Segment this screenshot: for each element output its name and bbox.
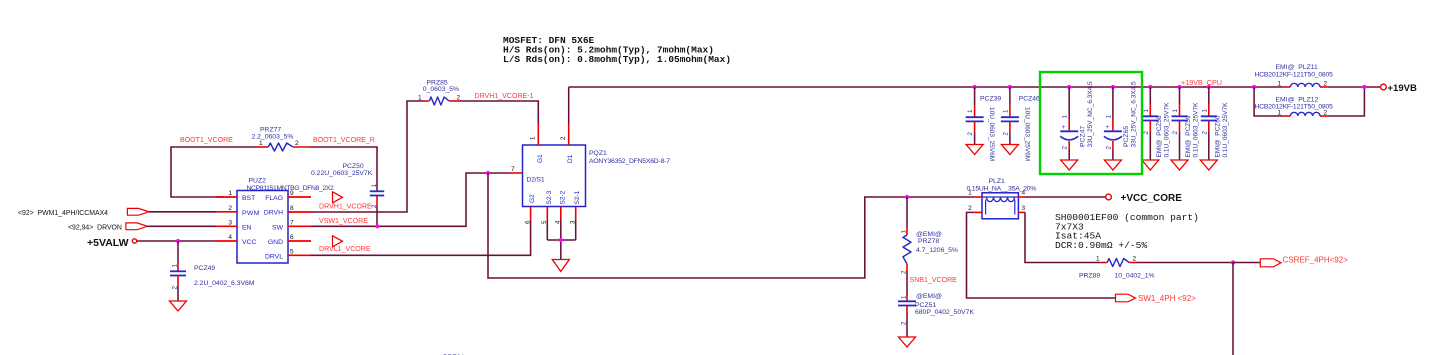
highlight box (green) (1040, 72, 1142, 174)
svg-text:PRZ77: PRZ77 (260, 126, 281, 133)
svg-text:33U_25V_NC_6.3X4.5: 33U_25V_NC_6.3X4.5 (1087, 81, 1094, 148)
svg-text:4: 4 (228, 234, 232, 241)
svg-text:DRVH1_VCORE-1: DRVH1_VCORE-1 (475, 93, 534, 100)
ferrite bead L PLZ12 (1255, 96, 1334, 116)
svg-text:PUZ2: PUZ2 (249, 177, 267, 184)
wire PCZ50 to VSW node (376, 206, 378, 226)
svg-text:2: 2 (968, 205, 972, 212)
net label DRVH1_VCORE (319, 203, 372, 210)
svg-text:VSW1_VCORE: VSW1_VCORE (319, 218, 368, 225)
svg-text:0.1U_0603_25V7K: 0.1U_0603_25V7K (1193, 102, 1200, 158)
svg-text:DRVL: DRVL (265, 253, 283, 260)
svg-text:1: 1 (1172, 109, 1179, 113)
svg-text:1: 1 (1143, 109, 1150, 113)
svg-text:+: + (1105, 124, 1109, 131)
net label VSW1_VCORE (319, 218, 368, 225)
svg-text:FLAG: FLAG (265, 195, 283, 202)
svg-text:9: 9 (290, 190, 294, 197)
svg-text:2: 2 (1201, 131, 1208, 135)
net label CSREF_4PH<92> (1283, 255, 1349, 264)
wire PLZ1 pin4 to +VCC_CORE (1026, 196, 1106, 198)
svg-text:2: 2 (1324, 80, 1328, 87)
junction node PCZ50 on VSW (375, 224, 379, 228)
svg-text:HCB2012KF-121T50_0805: HCB2012KF-121T50_0805 (1255, 104, 1334, 111)
capacitor C PCZ46 (1001, 85, 1040, 161)
signal arrow on GND row (DRVL1_VCORE) (333, 236, 343, 247)
svg-text:S2-1: S2-1 (574, 190, 581, 204)
svg-text:1: 1 (1201, 109, 1208, 113)
input port DRVON (68, 223, 148, 231)
wire CSREF to port (1233, 262, 1260, 264)
capacitor C PCZ47 (polarized) (1060, 81, 1094, 170)
svg-text:<92,94> DRVON: <92,94> DRVON (68, 224, 122, 231)
svg-text:PLZ1: PLZ1 (989, 178, 1005, 185)
note SH00001EF00 spec text (1055, 212, 1199, 251)
svg-text:2.2_0603_5%: 2.2_0603_5% (252, 133, 294, 140)
svg-text:HCB2012KF-121T50_0805: HCB2012KF-121T50_0805 (1255, 71, 1334, 78)
svg-text:DCR:0.90mΩ +/-5%: DCR:0.90mΩ +/-5% (1055, 240, 1147, 251)
svg-text:7: 7 (290, 219, 294, 226)
svg-text:D2/S1: D2/S1 (527, 177, 545, 184)
svg-text:1: 1 (259, 140, 263, 147)
signal arrow on FLAG row (DRVH1_VCORE) (333, 192, 343, 203)
svg-text:0.1U_0603_25V7K: 0.1U_0603_25V7K (1222, 102, 1229, 158)
svg-text:2: 2 (1143, 131, 1150, 135)
svg-text:1: 1 (228, 190, 232, 197)
svg-text:<92> PWM1_4PH/ICCMAX4: <92> PWM1_4PH/ICCMAX4 (18, 210, 108, 217)
svg-text:1: 1 (1277, 80, 1281, 87)
junction node CSREF (1231, 260, 1235, 264)
capacitor C PCZ59 (1171, 85, 1200, 170)
svg-text:SW1_4PH <92>: SW1_4PH <92> (1138, 294, 1196, 303)
svg-text:SW: SW (272, 224, 284, 231)
svg-text:0_0603_5%: 0_0603_5% (423, 86, 459, 93)
svg-text:S2-2: S2-2 (559, 190, 566, 204)
svg-text:2.2U_0402_6.3V6M: 2.2U_0402_6.3V6M (194, 280, 255, 287)
svg-text:BOOT1_VCORE_R: BOOT1_VCORE_R (313, 137, 375, 144)
svg-text:10U_0603_25V6M: 10U_0603_25V6M (1023, 107, 1030, 161)
svg-text:10U_0603_25V6M: 10U_0603_25V6M (988, 107, 995, 161)
wire D1 to +19VB bus (568, 87, 570, 124)
wire +5VALW to VCC pin 4 (137, 240, 216, 242)
svg-text:EMI@ PCZ60: EMI@ PCZ60 (1214, 115, 1221, 157)
svg-text:2: 2 (967, 132, 974, 136)
svg-text:2: 2 (1105, 146, 1112, 150)
junction node source bar (559, 238, 563, 242)
svg-text:G2: G2 (529, 194, 536, 203)
input port PWM1_4PH/ICCMAX4 (18, 208, 149, 216)
svg-text:1: 1 (1002, 109, 1009, 113)
net label DRVH1_VCORE-1 (475, 93, 534, 100)
svg-text:D1: D1 (567, 154, 574, 163)
svg-text:1: 1 (967, 109, 974, 113)
op-amp/driver IC PUZ2 body (237, 177, 334, 263)
svg-text:1: 1 (901, 295, 908, 299)
wire DRVH1_VCORE-1 (PRZ85 to G1) (460, 101, 538, 124)
svg-text:1: 1 (1096, 256, 1100, 263)
svg-text:DRVH: DRVH (264, 210, 283, 217)
capacitor C PCZ39 (966, 85, 1002, 161)
resistor R PRZ77 (252, 126, 311, 151)
svg-text:3: 3 (1022, 205, 1026, 212)
svg-text:VCC: VCC (242, 239, 256, 246)
svg-text:BST: BST (242, 195, 255, 202)
svg-text:2: 2 (172, 286, 179, 290)
junction node phase at D2/S1 (486, 171, 490, 175)
svg-text:2: 2 (457, 95, 461, 102)
svg-text:GND: GND (268, 239, 283, 246)
svg-text:1: 1 (901, 230, 908, 234)
svg-text:L/S Rds(on): 0.8mohm(Typ), 1.0: L/S Rds(on): 0.8mohm(Typ), 1.05mohm(Max) (503, 54, 731, 65)
wire CSREF net (PLZ1 pin3 through PRZ89) (1025, 212, 1233, 262)
wire DRVL net (pin 5 to G2) (311, 220, 531, 255)
svg-text:BOOT1_VCORE: BOOT1_VCORE (180, 137, 233, 144)
svg-text:EMI@ PCZ59: EMI@ PCZ59 (1185, 115, 1192, 157)
svg-text:PCZ50: PCZ50 (343, 163, 364, 170)
svg-text:0.22U_0603_25V7K: 0.22U_0603_25V7K (311, 170, 373, 177)
pin stubs PUZ2 right (9 FLAG, 8 DRVH, 7 SW, 6 GND, 5 DRVL) (288, 190, 311, 255)
junction node PRZ78 tap (905, 195, 909, 199)
junction node +5VALW / PCZ49 (176, 239, 180, 243)
svg-text:1: 1 (172, 264, 179, 268)
power terminal +VCC_CORE (1106, 193, 1183, 204)
svg-text:G1: G1 (537, 154, 544, 163)
transistor Q PQZ1 body (523, 145, 671, 207)
output port CSREF_4PH (1260, 259, 1281, 267)
svg-text:2: 2 (1133, 256, 1137, 263)
svg-text:2: 2 (901, 321, 908, 325)
svg-text:+19VB_CPU: +19VB_CPU (1181, 78, 1222, 87)
svg-text:2: 2 (228, 205, 232, 212)
wire VSW net (SW pin to phase) (311, 173, 510, 226)
wire SW1_4PH net (PLZ1 pin2) (967, 212, 1116, 298)
wire PQZ1 source pins to ground bar (547, 220, 575, 260)
junction node PLZ11/PLZ12 right (1362, 85, 1366, 89)
ground (PCZ49) (170, 301, 187, 311)
svg-text:EMI@ PLZ11: EMI@ PLZ11 (1276, 64, 1319, 71)
wire PLZ12 branch (1254, 87, 1364, 116)
svg-text:3: 3 (228, 219, 232, 226)
output port SW1_4PH (1116, 294, 1136, 302)
capacitor C PCZ60 (1200, 85, 1229, 170)
svg-text:0.1U_0603_25V7K: 0.1U_0603_25V7K (1163, 102, 1170, 158)
svg-text:EN: EN (242, 224, 252, 231)
net label SW1_4PH <92> (1138, 294, 1196, 303)
svg-text:PRZ78: PRZ78 (918, 238, 939, 245)
svg-text:SNB1_VCORE: SNB1_VCORE (910, 277, 958, 284)
ferrite bead L PLZ11 (1255, 64, 1334, 87)
svg-text:PCZ65: PCZ65 (1123, 126, 1130, 147)
svg-text:2: 2 (901, 270, 908, 274)
resistor R PRZ78 (901, 197, 958, 296)
svg-text:PRZ89: PRZ89 (1079, 273, 1100, 280)
svg-text:6: 6 (290, 234, 294, 241)
power terminal +5VALW (87, 237, 137, 249)
pin stubs PUZ2 left (1 BST, 2 PWM, 3 EN, 4 VCC) (216, 190, 237, 241)
svg-text:S2-3: S2-3 (546, 190, 553, 204)
svg-text:PCZ51: PCZ51 (915, 302, 936, 309)
svg-text:2: 2 (295, 140, 299, 147)
wire BOOT1_VCORE_R (PRZ77 to PCZ50) (311, 147, 378, 191)
wire BOOT1_VCORE net (BST to PRZ77) (171, 147, 256, 197)
svg-text:CSREF_4PH<92>: CSREF_4PH<92> (1283, 255, 1349, 264)
net label DRVL1_VCORE (319, 246, 371, 253)
svg-text:PCZ49: PCZ49 (194, 265, 215, 272)
wire phase node (D2/S1 down to PLZ1) (488, 173, 974, 278)
svg-text:PCZ39: PCZ39 (980, 96, 1001, 103)
svg-text:DRVL1_VCORE: DRVL1_VCORE (319, 246, 371, 253)
svg-text:5: 5 (290, 248, 294, 255)
svg-text:1: 1 (1062, 115, 1069, 119)
ground (PQZ1 source) (552, 260, 569, 272)
svg-text:1: 1 (1105, 115, 1112, 119)
svg-text:2: 2 (1062, 146, 1069, 150)
svg-text:+5VALW: +5VALW (87, 237, 129, 249)
svg-text:AONY36352_DFN5X6D-8-7: AONY36352_DFN5X6D-8-7 (589, 158, 670, 165)
wire CSREF junction down (1232, 263, 1234, 355)
svg-text:+VCC_CORE: +VCC_CORE (1121, 193, 1183, 204)
svg-text:33U_25V_NC_6.3X4.5: 33U_25V_NC_6.3X4.5 (1131, 81, 1138, 148)
svg-text:1: 1 (371, 184, 378, 188)
capacitor C PCZ51 (898, 293, 974, 337)
svg-text:PWM: PWM (242, 210, 260, 217)
svg-text:+: + (1062, 124, 1066, 131)
wire DRVH net (pin 8 up to PRZ85) (311, 101, 423, 212)
capacitor C PCZ50 (311, 163, 384, 208)
note MOSFET spec text (503, 35, 731, 65)
resistor R PRZ89 (1079, 256, 1155, 280)
net label SNB1_VCORE (910, 277, 958, 284)
svg-text:8: 8 (290, 205, 294, 212)
svg-text:DRVH1_VCORE: DRVH1_VCORE (319, 203, 372, 210)
pin stubs PQZ1 top (1 G1, 2 D1) (530, 124, 569, 145)
svg-text:EMI@ PLZ12: EMI@ PLZ12 (1276, 96, 1319, 103)
resistor R PRZ85 (418, 79, 461, 105)
capacitor C PCZ65 (polarized) (1104, 81, 1138, 170)
svg-text:1: 1 (418, 95, 422, 102)
svg-text:1: 1 (530, 136, 537, 140)
inductor L PLZ1 (967, 178, 1037, 219)
svg-text:0.15UH_NA__35A_20%: 0.15UH_NA__35A_20% (967, 185, 1037, 192)
wire +19VB bus (569, 86, 1381, 88)
ground (PCZ51) (899, 337, 916, 347)
net label BOOT1_VCORE_R (313, 137, 375, 144)
svg-text:PQZ1: PQZ1 (589, 150, 607, 157)
pin stubs PQZ1 bottom (6 G2, 5 S2-3, 4 S2-2, 3 S2-1) (524, 207, 576, 225)
partial text PRZ84 (clipped at bottom edge) (443, 354, 464, 355)
net label BOOT1_VCORE (180, 137, 233, 144)
svg-text:PCZ46: PCZ46 (1019, 96, 1040, 103)
svg-text:7: 7 (511, 166, 515, 173)
svg-text:2: 2 (560, 136, 567, 140)
svg-text:PCZ47: PCZ47 (1080, 126, 1087, 147)
svg-text:@EMI@: @EMI@ (916, 293, 942, 300)
capacitor C PCZ49 (170, 241, 255, 301)
svg-text:@EMI@: @EMI@ (916, 231, 942, 238)
svg-text:2: 2 (1172, 131, 1179, 135)
svg-text:6: 6 (524, 220, 531, 224)
svg-text:680P_0402_50V7K: 680P_0402_50V7K (915, 309, 974, 316)
pin stub PQZ1 left (7 D2/S1) (510, 166, 523, 173)
svg-text:10_0402_1%: 10_0402_1% (1115, 273, 1155, 280)
wire EN input to pin 3 (148, 225, 217, 227)
svg-text:EMI@ PCZ58: EMI@ PCZ58 (1156, 115, 1163, 157)
capacitor C PCZ58 (1142, 85, 1171, 170)
junction node PLZ11/PLZ12 left (1252, 85, 1256, 89)
svg-text:4.7_1206_5%: 4.7_1206_5% (916, 247, 958, 254)
svg-text:+19VB: +19VB (1388, 83, 1417, 94)
power terminal +19VB (1381, 83, 1417, 94)
power label +19VB_CPU (1181, 78, 1222, 87)
wire PWM input to pin 2 (149, 211, 216, 213)
svg-text:2: 2 (1002, 132, 1009, 136)
